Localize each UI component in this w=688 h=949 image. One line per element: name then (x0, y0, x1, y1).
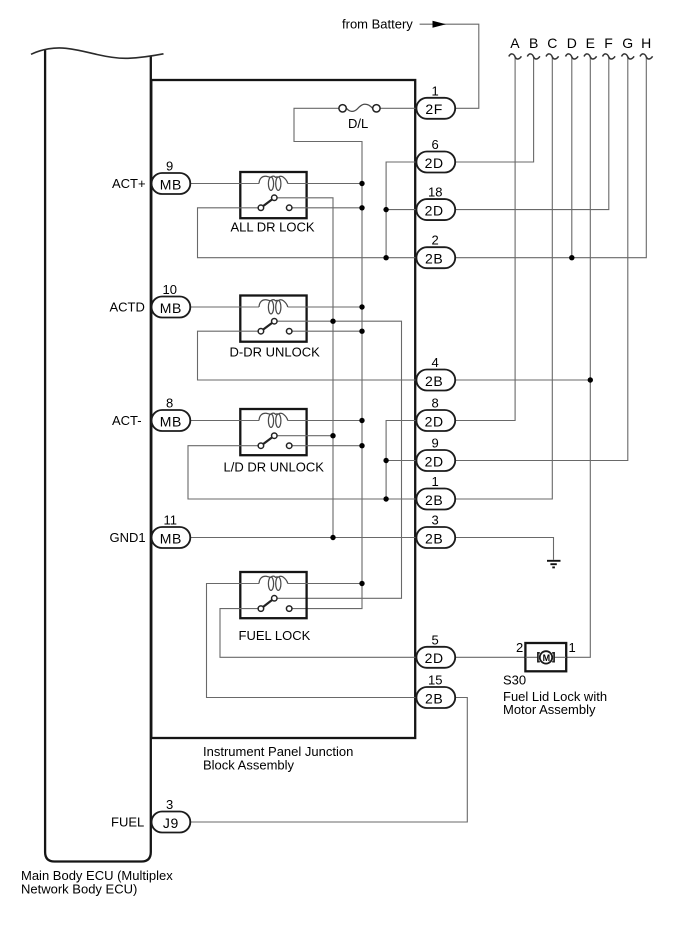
junction dot: ground chain at GND1 wire (330, 535, 335, 540)
junction dot: drop E on 2B4 wire (588, 377, 593, 382)
wire: MB8 to L/D DR UNLOCK coil (190, 420, 259, 422)
svg-text:2D: 2D (425, 202, 444, 218)
wire: fuse D/L left lead down to common power rail x=362 ending at FUEL LOCK switch contact (293, 108, 363, 608)
connector MB pin 9 (152, 173, 191, 194)
wire: FUEL LOCK coil to power rail (288, 583, 362, 585)
connector J9 pin 3 (152, 812, 191, 833)
svg-text:1: 1 (432, 474, 439, 489)
Instrument Panel Junction Block Assembly box (151, 80, 415, 738)
svg-text:6: 6 (432, 137, 439, 152)
svg-text:D-DR UNLOCK: D-DR UNLOCK (230, 345, 321, 360)
svg-text:Block Assembly: Block Assembly (203, 758, 295, 773)
junction dot: inner link at 2B1 wire (383, 496, 388, 501)
FUEL LOCK switch armature (261, 598, 274, 608)
svg-text:15: 15 (428, 673, 442, 688)
wire: drop D (571, 57, 573, 258)
wire: 2B1 to drop C (455, 57, 552, 499)
node A wire-continuation squiggle (509, 54, 522, 59)
L/D DR UNLOCK movable contact pivot (272, 433, 278, 439)
ground symbol (547, 561, 561, 568)
junction dot: power rail at D-DR UNLOCK switch common (359, 329, 364, 334)
svg-text:18: 18 (428, 185, 442, 200)
ALL DR LOCK coil L1 (259, 176, 288, 190)
svg-text:from Battery: from Battery (342, 17, 413, 32)
wire: 2B3 to chassis ground (455, 538, 553, 560)
svg-text:2D: 2D (425, 155, 444, 171)
connector 2D pin 9 (416, 450, 455, 471)
relay box D-DR UNLOCK (240, 296, 306, 342)
svg-text:ALL DR LOCK: ALL DR LOCK (231, 220, 315, 235)
svg-text:C: C (547, 35, 557, 51)
L/D DR UNLOCK switch armature (261, 436, 274, 446)
connector MB pin 11 (152, 527, 191, 548)
wire: fuse D/L right lead to connector 2F (380, 107, 416, 109)
svg-text:D/L: D/L (348, 116, 368, 131)
wire: L/D DR UNLOCK switch common to power rail (293, 445, 363, 447)
D-DR UNLOCK movable contact pivot (272, 318, 278, 324)
motor right bracket (552, 653, 554, 662)
svg-text:E: E (586, 35, 595, 51)
node G wire-continuation squiggle (622, 54, 635, 59)
connector 2B pin 1 (416, 489, 455, 510)
FUEL LOCK switch right contact (286, 606, 292, 612)
wire: stub to 2D9 (386, 460, 416, 462)
wire: D-DR UNLOCK coil to power rail (288, 306, 362, 308)
wire: junction-block inner link 2D8 to 2D9 to 2B1 via x=386.1 (386, 421, 416, 500)
node F wire-continuation squiggle (603, 54, 616, 59)
svg-text:MB: MB (160, 413, 182, 429)
Main Body ECU U1 outline (45, 50, 151, 862)
junction dot: inner link at 2B2 wire (383, 255, 388, 260)
junction dot: inner link at 2D18 (383, 207, 388, 212)
fuse D/L element (347, 104, 373, 111)
svg-text:ACTD: ACTD (110, 300, 145, 315)
wire: ALL DR LOCK switch output to 2B2 via x=197.5 (198, 208, 417, 258)
svg-text:FUEL LOCK: FUEL LOCK (239, 628, 311, 643)
wire: L/D DR UNLOCK movable contact to ground chain (278, 435, 333, 437)
svg-text:2B: 2B (425, 251, 443, 267)
connector 2D pin 5 (416, 647, 455, 668)
svg-text:FUEL: FUEL (111, 815, 144, 830)
connector 2D pin 18 (416, 199, 455, 220)
node C wire-continuation squiggle (546, 54, 559, 59)
motor circle M (540, 651, 552, 663)
svg-text:ACT-: ACT- (112, 413, 142, 428)
ALL DR LOCK movable contact pivot (272, 195, 278, 201)
connector 2B pin 4 (416, 370, 455, 391)
svg-text:J9: J9 (163, 815, 179, 831)
svg-text:2B: 2B (425, 492, 443, 508)
svg-text:Motor Assembly: Motor Assembly (503, 702, 596, 717)
wire: FUEL LOCK switch output to 2D5 via x=220 (220, 609, 416, 658)
connector 2D pin 6 (416, 152, 455, 173)
node B wire-continuation squiggle (527, 54, 540, 59)
wire: ALL DR LOCK switch common to power rail (293, 207, 363, 209)
ALL DR LOCK switch right contact (286, 205, 292, 211)
junction dot: ground chain at D-DR UNLOCK movable (330, 319, 335, 324)
connector MB pin 10 (152, 297, 191, 318)
FUEL LOCK movable contact pivot (272, 596, 278, 602)
svg-text:2: 2 (516, 640, 523, 655)
connector 2B pin 15 (416, 687, 455, 708)
svg-text:2B: 2B (425, 373, 443, 389)
connector 2B pin 2 (416, 247, 455, 268)
svg-text:3: 3 (432, 513, 439, 528)
wire: stub to 2D18 (386, 209, 416, 211)
junction dot: power rail at L/D DR UNLOCK coil (359, 418, 364, 423)
svg-text:2D: 2D (425, 650, 444, 666)
svg-text:D: D (567, 35, 577, 51)
svg-text:1: 1 (432, 83, 439, 98)
svg-text:M: M (543, 653, 551, 663)
junction dot: power rail at D-DR UNLOCK coil (359, 304, 364, 309)
L/D DR UNLOCK coil L3 (259, 413, 288, 427)
svg-text:2F: 2F (425, 101, 443, 117)
wire: junction-block inner link 2D6 to 2D18 to 2B2 via x=386.1 (386, 162, 416, 258)
svg-text:5: 5 (432, 632, 439, 647)
D-DR UNLOCK switch right contact (286, 328, 292, 334)
relay box L/D DR UNLOCK (240, 409, 306, 455)
wire: L/D DR UNLOCK switch output to 2B1 via x=188 (188, 446, 416, 499)
svg-text:G: G (622, 35, 633, 51)
connector 2B pin 3 (416, 527, 455, 548)
wire: ALL DR LOCK coil to power rail (288, 183, 362, 185)
fuse D/L right terminal circle (373, 105, 380, 112)
svg-text:2: 2 (432, 233, 439, 248)
svg-text:10: 10 (163, 282, 177, 297)
motor left bracket (538, 653, 540, 662)
fuse D/L left terminal circle (339, 105, 346, 112)
L/D DR UNLOCK switch right contact (286, 443, 292, 449)
wire: 2D5 to fuel lid motor pin 2 (455, 656, 525, 658)
wire: D-DR UNLOCK movable contact over to x=401.5 down to FUEL LOCK movable contact (278, 321, 402, 598)
svg-text:3: 3 (166, 797, 173, 812)
ALL DR LOCK switch left contact (258, 205, 264, 211)
svg-text:ACT+: ACT+ (112, 176, 146, 191)
ALL DR LOCK switch armature (261, 198, 274, 208)
FUEL LOCK switch left contact (258, 606, 264, 612)
wire: 2D18 to drop F (455, 57, 609, 209)
wire: D-DR UNLOCK switch common to power rail (293, 330, 363, 332)
svg-text:2B: 2B (425, 530, 443, 546)
wire: from-Battery feed to connector 2F pin 1 (420, 24, 479, 108)
motor M1 internal leads (525, 656, 566, 658)
svg-text:H: H (641, 35, 651, 51)
wire: FUEL LOCK coil left lead down to 2B15 (207, 584, 417, 698)
relay box FUEL LOCK (240, 572, 306, 618)
svg-text:A: A (510, 35, 520, 51)
D-DR UNLOCK switch left contact (258, 328, 264, 334)
wire: 2D6 to drop B (455, 57, 533, 162)
junction dot: power rail at FUEL LOCK coil (359, 581, 364, 586)
junction dot: power rail at ALL DR LOCK coil (359, 181, 364, 186)
svg-text:S30: S30 (503, 673, 526, 688)
junction dot: drop D on 2B2 wire (569, 255, 574, 260)
wire: GND1 MB11 to 2B3 (190, 537, 416, 539)
svg-text:MB: MB (160, 300, 182, 316)
wire: MB9 to ALL DR LOCK coil (190, 183, 259, 185)
junction dot: ground chain at L/D DR UNLOCK movable (330, 433, 335, 438)
wire: 2B4 stub to drop E (455, 379, 590, 381)
junction dot: power rail at ALL DR LOCK switch common (359, 205, 364, 210)
svg-text:2D: 2D (425, 453, 444, 469)
svg-text:9: 9 (166, 159, 173, 174)
svg-text:8: 8 (166, 396, 173, 411)
svg-text:Network Body ECU): Network Body ECU) (21, 882, 137, 897)
FUEL LOCK coil L4 (259, 576, 288, 590)
connector MB pin 8 (152, 410, 191, 431)
svg-text:2B: 2B (425, 690, 443, 706)
svg-text:8: 8 (432, 396, 439, 411)
wire: 2D9 to drop G (455, 57, 628, 460)
svg-text:GND1: GND1 (110, 530, 146, 545)
S30 fuel lid motor box (525, 643, 566, 671)
wire: ALL DR LOCK movable contact to ground chain x=333 down to GND1 (278, 198, 333, 538)
relay box ALL DR LOCK (240, 172, 306, 218)
svg-text:MB: MB (160, 530, 182, 546)
junction dot: power rail at L/D DR UNLOCK switch common (359, 443, 364, 448)
wire: L/D DR UNLOCK coil to power rail (288, 420, 362, 422)
arrowhead on battery feed (433, 21, 447, 28)
svg-text:9: 9 (432, 436, 439, 451)
svg-text:MB: MB (160, 176, 182, 192)
L/D DR UNLOCK switch left contact (258, 443, 264, 449)
svg-text:L/D DR UNLOCK: L/D DR UNLOCK (224, 460, 325, 475)
node D wire-continuation squiggle (566, 54, 579, 59)
wire: MB10 to D-DR UNLOCK coil (190, 306, 259, 308)
wire: D-DR UNLOCK switch output to 2B4 via x=197.5 (198, 331, 417, 380)
node H wire-continuation squiggle (640, 54, 653, 59)
connector 2F pin 1 (416, 98, 455, 119)
svg-text:B: B (529, 35, 538, 51)
svg-text:1: 1 (569, 640, 576, 655)
svg-text:2D: 2D (425, 413, 444, 429)
node E wire-continuation squiggle (584, 54, 597, 59)
wire: 2D8 to drop A (455, 57, 515, 420)
D-DR UNLOCK coil L2 (259, 300, 288, 314)
junction dot: inner link at 2D9 (383, 458, 388, 463)
D-DR UNLOCK switch armature (261, 321, 274, 331)
connector 2D pin 8 (416, 410, 455, 431)
Main Body ECU torn-edge wave (31, 48, 164, 58)
wire: J9 FUEL output up to 2B15 (190, 698, 467, 823)
svg-text:4: 4 (432, 355, 439, 370)
wire: drop E down to fuel lid motor pin 1 (566, 57, 590, 657)
svg-text:11: 11 (164, 513, 178, 528)
svg-text:F: F (604, 35, 613, 51)
wire: 2B2 to drop H crossing drop D (455, 57, 646, 258)
